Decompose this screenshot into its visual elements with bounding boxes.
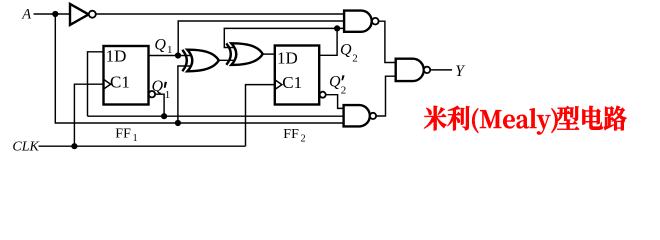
wire Q1 output to XOR U1 <box>149 55 192 57</box>
svg-text:2: 2 <box>301 133 306 144</box>
svg-text:Q: Q <box>329 74 341 91</box>
junction A bus <box>175 120 181 126</box>
inverter U6 bubble <box>89 11 96 18</box>
junction Q2 <box>334 25 340 31</box>
wire FF1 1D input riser <box>88 52 104 116</box>
nand gate U3 bubble <box>372 18 379 25</box>
svg-text:C1: C1 <box>110 72 130 91</box>
junction CLK <box>71 143 77 149</box>
junction Q1 <box>175 52 181 58</box>
wire A riser to XOR U1 input 2 <box>178 66 192 123</box>
title glyph cjk 0x7535 <box>582 106 602 130</box>
wire CLK to FF1 C1 <box>74 84 103 146</box>
junction Q1' bus <box>161 113 167 119</box>
svg-text:Q: Q <box>152 78 164 95</box>
inverter U6 triangle <box>70 4 89 25</box>
wire A bus to NAND U4 input 3 <box>55 14 343 123</box>
svg-text:1D: 1D <box>106 47 127 66</box>
title glyph cjk 0x8def <box>604 106 627 131</box>
xor gate U1 body <box>187 50 219 72</box>
flip-flop FF1 Q1' bubble <box>149 91 155 97</box>
svg-text:Q: Q <box>154 37 166 54</box>
nand gate U4 body <box>344 105 370 126</box>
title glyph latin ) <box>551 108 557 133</box>
title glyph latin M <box>480 110 501 128</box>
xor gate U2 input arc <box>226 43 231 64</box>
wire XOR U2 output to FF2 1D <box>263 53 275 55</box>
nand gate U3 body <box>344 11 372 32</box>
flip-flop FF2 clock wedge <box>275 80 282 90</box>
wire A' from inverter to NAND U3 input 1 <box>96 13 344 15</box>
title glyph latin a <box>516 115 528 129</box>
title glyph cjk 0x578b <box>557 106 579 130</box>
svg-text:FF: FF <box>115 127 131 142</box>
svg-text:C1: C1 <box>282 73 302 92</box>
title glyph latin l <box>530 108 537 128</box>
wire Q1' bus to NAND U4 input 2 <box>88 115 344 117</box>
wire NAND U3 output to NAND U5 input 1 <box>379 21 396 62</box>
wire CLK to FF2 C1 <box>246 85 275 147</box>
nand gate U5 body <box>396 59 424 81</box>
xor gate U1 input arc <box>182 50 187 71</box>
title glyph latin ( <box>472 108 478 133</box>
svg-text:1: 1 <box>167 44 173 56</box>
svg-text:Q: Q <box>340 42 352 59</box>
wire Q1' output riser <box>155 94 164 116</box>
svg-text:1: 1 <box>133 133 138 144</box>
svg-text:FF: FF <box>283 127 299 142</box>
wire Q2 net to NAND U3 input 3 and XOR U2 input <box>224 28 344 47</box>
wire Y output <box>430 69 452 71</box>
wire Q2 output riser <box>319 28 337 55</box>
svg-text:2: 2 <box>341 84 347 96</box>
svg-text:A: A <box>21 6 31 22</box>
xor gate U2 body <box>231 43 262 65</box>
wire A input <box>34 13 70 15</box>
flip-flop FF1 box <box>104 46 149 105</box>
wire CLK input <box>39 145 246 147</box>
wire Q2' riser to NAND U4 input 1 <box>325 95 343 109</box>
flip-flop FF2 box <box>275 46 319 105</box>
flip-flop FF1 clock wedge <box>104 79 111 89</box>
svg-text:2: 2 <box>352 53 358 65</box>
wire Q1 riser to NAND U3 input 2 <box>178 21 344 56</box>
flip-flop FF2 Q2' bubble <box>320 92 326 98</box>
nand gate U4 bubble <box>370 113 376 119</box>
title glyph latin y <box>537 115 551 134</box>
svg-text:CLK: CLK <box>12 139 39 154</box>
title glyph latin e <box>503 115 514 129</box>
svg-text:1: 1 <box>165 89 171 101</box>
wire XOR U1 output to XOR U2 input <box>219 59 237 61</box>
title glyph cjk 0x7c73 <box>424 106 447 131</box>
wire NAND U4 output to NAND U5 input 2 <box>376 76 396 116</box>
nand gate U5 bubble <box>424 67 430 73</box>
svg-text:Y: Y <box>455 63 465 80</box>
svg-text:1D: 1D <box>277 49 298 68</box>
title glyph cjk 0x5229 <box>447 106 469 131</box>
junction A top <box>52 11 58 17</box>
